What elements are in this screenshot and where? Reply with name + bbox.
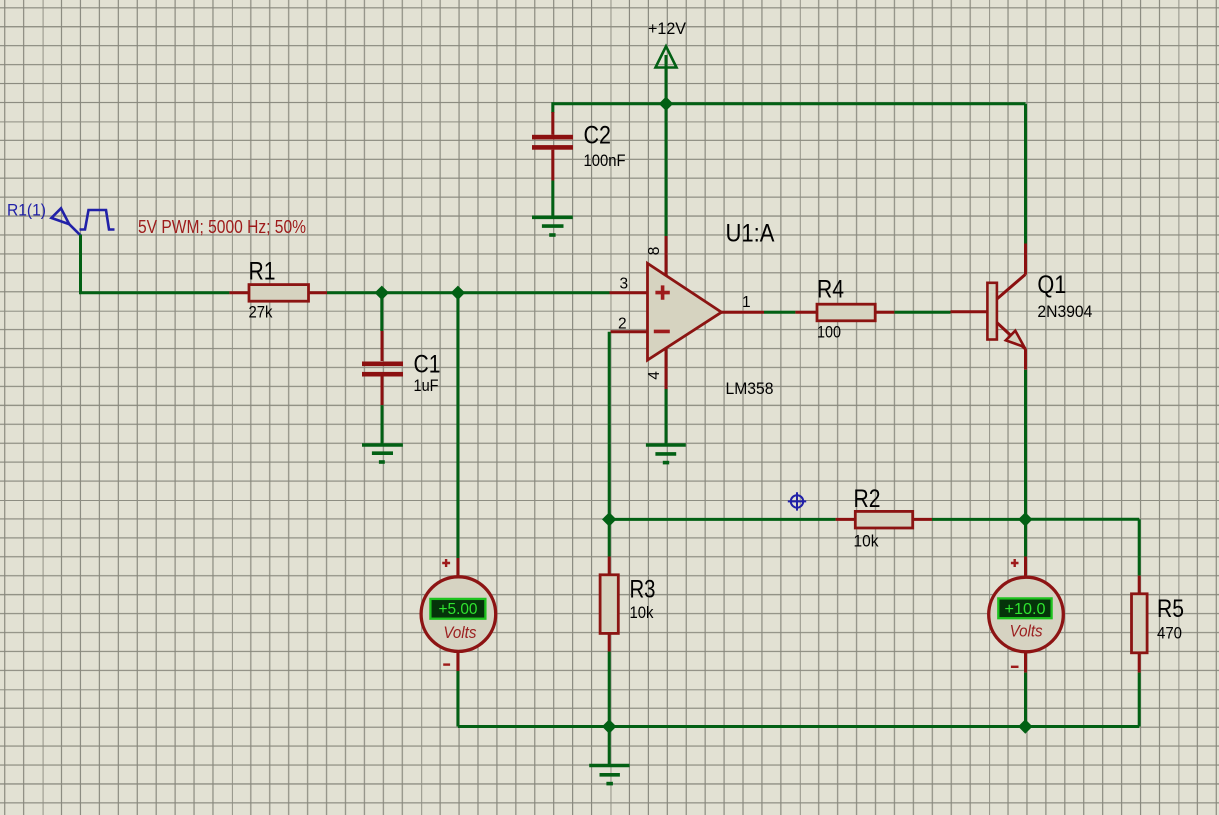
wire node to R3 bbox=[608, 519, 611, 556]
wire opamp out to R4 bbox=[764, 311, 795, 314]
capacitor C1 bbox=[362, 331, 403, 405]
svg-text:8: 8 bbox=[646, 247, 663, 256]
svg-text:Volts: Volts bbox=[443, 623, 476, 642]
svg-text:100: 100 bbox=[817, 323, 841, 342]
junction bottom ground node bbox=[603, 720, 616, 733]
transistor Q1 bbox=[951, 244, 1026, 370]
voltmeter VM2 bbox=[989, 557, 1064, 673]
power rail +12V symbol bbox=[656, 46, 677, 103]
svg-text:5V PWM; 5000 Hz; 50%: 5V PWM; 5000 Hz; 50% bbox=[138, 216, 306, 237]
wire bottom rail left bbox=[458, 725, 609, 728]
wire R4 to Q1 base bbox=[894, 311, 950, 314]
wire top rail to Q1 collector bbox=[1024, 104, 1027, 244]
resistor R1 bbox=[229, 285, 327, 302]
junction top rail bbox=[660, 97, 673, 110]
svg-text:R1(1): R1(1) bbox=[7, 201, 46, 220]
label R3 bbox=[630, 575, 656, 603]
label C2 bbox=[584, 122, 612, 150]
svg-text:1: 1 bbox=[742, 294, 751, 311]
value 2N3904 bbox=[1037, 302, 1092, 321]
svg-text:470: 470 bbox=[1157, 623, 1182, 642]
svg-text:10k: 10k bbox=[854, 532, 879, 551]
wire emitter node to voltmeter2 bbox=[1024, 519, 1027, 556]
svg-text:1uF: 1uF bbox=[414, 376, 439, 395]
svg-text:R2: R2 bbox=[854, 485, 881, 513]
wire generator to R1 bbox=[79, 291, 229, 294]
svg-text:R1: R1 bbox=[249, 258, 276, 286]
svg-text:C2: C2 bbox=[584, 122, 612, 150]
wire R5 top drop bbox=[1138, 519, 1141, 575]
power label +12V bbox=[648, 19, 687, 38]
svg-text:R4: R4 bbox=[817, 276, 844, 304]
value 10k (R3) bbox=[630, 603, 654, 622]
svg-text:100nF: 100nF bbox=[584, 151, 626, 170]
svg-text:2N3904: 2N3904 bbox=[1037, 302, 1092, 321]
label R1 bbox=[249, 258, 276, 286]
wire pin2 node to R2 bbox=[609, 518, 835, 521]
wire C1 top bbox=[380, 293, 383, 331]
svg-text:+5.00: +5.00 bbox=[439, 601, 478, 618]
wire C1 to ground bbox=[381, 405, 384, 444]
junction node voltmeter branch bbox=[451, 286, 464, 299]
value 27k bbox=[249, 303, 273, 322]
junction node R2 left bbox=[603, 513, 616, 526]
svg-text:+10.0: +10.0 bbox=[1005, 601, 1046, 618]
value 1uF bbox=[414, 376, 439, 395]
junction bottom voltmeter2 bbox=[1019, 720, 1032, 733]
op-amp U1:A bbox=[610, 236, 765, 389]
wire C2 to ground bbox=[551, 181, 554, 218]
resistor R3 bbox=[600, 557, 618, 652]
wire generator vertical bbox=[79, 235, 82, 293]
ground under C2 bbox=[532, 217, 573, 235]
label R2 bbox=[854, 485, 881, 513]
wire bottom rail right bbox=[609, 725, 1139, 728]
wire C2 top bbox=[551, 102, 554, 113]
ground under opamp bbox=[646, 445, 686, 463]
svg-text:27k: 27k bbox=[249, 303, 273, 322]
value 10k (R2) bbox=[854, 532, 879, 551]
value LM358 bbox=[726, 379, 774, 398]
pin number 2 bbox=[618, 316, 627, 333]
resistor R4 bbox=[795, 304, 894, 321]
label R4 bbox=[817, 276, 844, 304]
wire Q1 emitter down bbox=[1024, 370, 1027, 520]
resistor R5 bbox=[1132, 576, 1148, 673]
svg-text:R3: R3 bbox=[630, 575, 656, 603]
wire opamp pin8 bbox=[665, 104, 668, 236]
svg-text:Q1: Q1 bbox=[1037, 271, 1066, 299]
wire voltmeter1 drop bbox=[456, 293, 459, 558]
svg-text:LM358: LM358 bbox=[726, 379, 774, 398]
svg-text:10k: 10k bbox=[630, 603, 654, 622]
wire R2 node to R5 bbox=[1026, 518, 1140, 521]
wire voltmeter2 bottom bbox=[1024, 673, 1027, 727]
svg-text:+12V: +12V bbox=[648, 19, 687, 38]
wire R1 to opamp pin3 bbox=[327, 291, 610, 294]
svg-text:3: 3 bbox=[620, 276, 629, 293]
pin number 3 bbox=[620, 276, 629, 293]
origin marker bbox=[788, 492, 806, 510]
generator probe R1(1) bbox=[51, 208, 80, 235]
wire top rail bbox=[553, 102, 1026, 105]
svg-text:C1: C1 bbox=[414, 351, 441, 379]
pin number 1 bbox=[742, 294, 751, 311]
capacitor C2 bbox=[532, 112, 573, 181]
label R5 bbox=[1157, 595, 1184, 623]
svg-text:2: 2 bbox=[618, 316, 627, 333]
wire voltmeter1 bottom bbox=[456, 671, 459, 727]
resistor R2 bbox=[836, 511, 932, 528]
voltmeter VM1 bbox=[421, 558, 496, 671]
ground bottom bbox=[589, 766, 629, 784]
wire R5 bottom bbox=[1138, 673, 1141, 727]
wire opamp pin4 to ground bbox=[665, 389, 668, 444]
generator value text 5V PWM bbox=[138, 216, 306, 237]
label Q1 bbox=[1037, 271, 1066, 299]
junction emitter node bbox=[1019, 513, 1032, 526]
wire R3 to bottom rail bbox=[608, 652, 611, 727]
wire bottom node to ground bbox=[608, 727, 611, 766]
ground under C1 bbox=[362, 445, 403, 462]
value 470 bbox=[1157, 623, 1182, 642]
pin number 4 bbox=[646, 371, 663, 380]
generator pulse waveform icon bbox=[80, 210, 115, 230]
svg-text:4: 4 bbox=[646, 371, 663, 380]
generator label R1(1) bbox=[7, 201, 46, 220]
wire R2 to emitter node bbox=[932, 518, 1026, 521]
junction node C1 branch bbox=[375, 286, 388, 299]
pin number 8 bbox=[646, 247, 663, 256]
svg-text:R5: R5 bbox=[1157, 595, 1184, 623]
value 100 bbox=[817, 323, 841, 342]
wire opamp pin2 drop bbox=[608, 332, 611, 520]
svg-text:U1:A: U1:A bbox=[726, 220, 775, 248]
value 100nF bbox=[584, 151, 626, 170]
label U1:A bbox=[726, 220, 775, 248]
svg-text:Volts: Volts bbox=[1010, 621, 1043, 640]
label C1 bbox=[414, 351, 441, 379]
